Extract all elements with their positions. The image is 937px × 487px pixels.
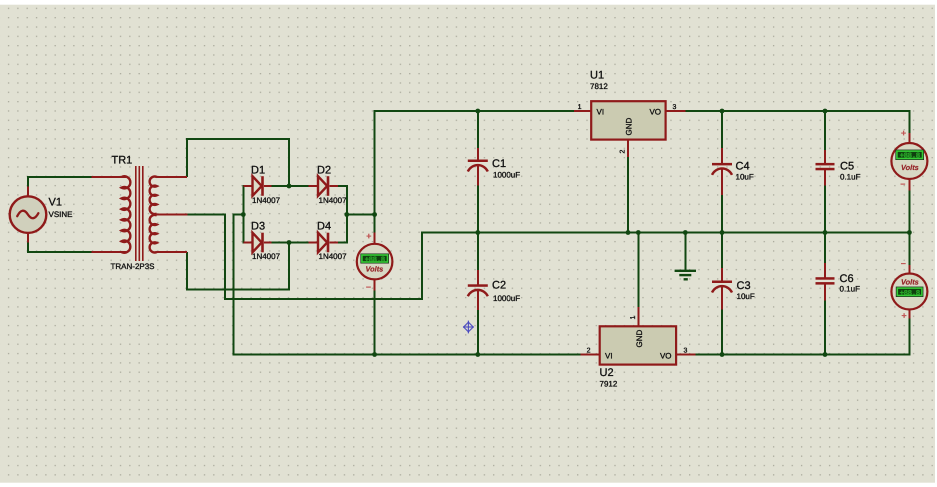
- voltmeter VM1 (raw supply): [357, 233, 393, 291]
- junction: C5 top on top rail: [823, 109, 828, 114]
- svg-text:1: 1: [630, 316, 637, 320]
- svg-text:+: +: [366, 231, 371, 241]
- svg-text:D3: D3: [251, 221, 265, 233]
- junction: D1/D3 anodes with branch: [241, 212, 246, 217]
- wire: C4 top connection: [721, 111, 723, 149]
- svg-text:C5: C5: [840, 161, 854, 173]
- svg-text:+88.8: +88.8: [365, 257, 386, 265]
- diode D2: [309, 176, 338, 196]
- wire: voltmeter VM3 bottom down to negative rail: [908, 318, 910, 356]
- wire: D2 cathode to D2-D4 vertical: [338, 185, 348, 187]
- junction: C2 bottom on negative rail: [475, 352, 480, 357]
- capacitor C1: [468, 148, 488, 186]
- wire: C6 top from mid rail: [824, 232, 826, 264]
- wire: U1 GND pin down to mid rail: [627, 157, 629, 234]
- svg-text:7912: 7912: [600, 380, 618, 389]
- junction: D3 cathode / D4 anode / secondary bottom: [287, 240, 292, 245]
- wire: C2 top from mid rail: [477, 232, 479, 271]
- svg-text:U2: U2: [600, 367, 614, 379]
- wire: voltmeter VM1 plus stub: [374, 215, 376, 234]
- wire: U2 GND pin up to mid rail: [637, 232, 639, 308]
- svg-text:VO: VO: [649, 108, 661, 117]
- junction: C1 top on top rail: [475, 109, 480, 114]
- wire: C2 bottom to negative rail: [477, 310, 479, 356]
- svg-text:C4: C4: [736, 161, 750, 173]
- wire: D4 cathode to D2-D4 vertical: [338, 242, 348, 244]
- junction: D1 cathode / D2 anode / secondary top: [287, 184, 292, 189]
- origin marker: [463, 321, 474, 334]
- wire: C1 top connection: [477, 111, 479, 149]
- junction: VM1 minus on negative rail: [372, 352, 377, 357]
- wire: C4 bottom to mid rail: [721, 195, 723, 234]
- svg-text:VI: VI: [597, 108, 605, 117]
- svg-text:D4: D4: [317, 221, 331, 233]
- wire: TR1 secondary bottom pin down and over to D3-D4 junction: [186, 243, 290, 291]
- wire: C5 bottom to mid rail: [824, 185, 826, 233]
- svg-text:VI: VI: [605, 352, 613, 361]
- svg-text:0.1uF: 0.1uF: [840, 173, 861, 182]
- junction: ground symbol on mid rail: [683, 230, 688, 235]
- capacitor C2: [468, 270, 488, 310]
- voltmeter VM3 (-12V output): [891, 265, 927, 319]
- voltmeter VM2 (+12V output): [891, 133, 927, 191]
- svg-text:GND: GND: [625, 118, 634, 136]
- transformer TR1: [92, 166, 188, 261]
- wire: C3 bottom to negative rail: [721, 309, 723, 355]
- wire: D3 cathode to D4 anode: [271, 242, 309, 244]
- AC source V1: [10, 187, 47, 243]
- junction: D2/D4 cathodes: [344, 212, 349, 217]
- wire: voltmeter VM1 minus down to negative rail: [374, 290, 376, 356]
- voltage regulator U2 7912: [581, 307, 696, 364]
- wire: negative bottom rail (left part, to U2 VI): [234, 354, 581, 356]
- svg-text:TRAN-2P3S: TRAN-2P3S: [111, 262, 155, 271]
- svg-text:7812: 7812: [590, 82, 608, 91]
- wire: negative bottom rail (right part, from U2 VO): [696, 354, 911, 356]
- svg-text:−: −: [901, 259, 906, 269]
- junction: voltmeters on mid rail right end: [907, 230, 912, 235]
- svg-text:1000uF: 1000uF: [493, 171, 520, 180]
- svg-text:GND: GND: [635, 330, 644, 348]
- svg-text:1N4007: 1N4007: [319, 196, 348, 205]
- svg-text:−: −: [900, 179, 905, 189]
- svg-text:D1: D1: [251, 165, 265, 177]
- svg-text:2: 2: [587, 348, 591, 355]
- wire: V1 bottom terminal to TR1 primary bottom: [27, 242, 92, 253]
- svg-text:VO: VO: [660, 352, 672, 361]
- voltage regulator U1 7812: [574, 101, 685, 157]
- wire: voltmeter VM2 minus down to mid rail: [908, 190, 910, 233]
- svg-text:Volts: Volts: [901, 163, 919, 172]
- wire: vertical joining D2 and D4 cathodes: [346, 185, 348, 244]
- wire: TR1 secondary top pin up and over to D1-D2 junction: [186, 138, 290, 186]
- wire: C5 top connection: [824, 111, 826, 151]
- junction: C4/C3 on mid rail: [720, 230, 725, 235]
- svg-text:1N4007: 1N4007: [252, 252, 281, 261]
- capacitor C3: [712, 268, 732, 310]
- svg-text:+: +: [901, 128, 906, 138]
- wire: D1/D3 anode node branch to negative rail: [234, 214, 244, 356]
- svg-text:D2: D2: [317, 165, 331, 177]
- svg-text:Volts: Volts: [366, 265, 384, 274]
- svg-text:10uF: 10uF: [737, 292, 755, 301]
- svg-text:Volts: Volts: [901, 278, 919, 287]
- wire: C3 top from mid rail: [721, 232, 723, 269]
- wire: D2/D4 cathode node to voltmeter column: [347, 214, 376, 216]
- svg-text:C1: C1: [492, 158, 506, 170]
- capacitor C5: [816, 150, 835, 186]
- wire: positive top rail (right part, from U1 VO): [685, 110, 910, 112]
- svg-text:1: 1: [578, 104, 582, 111]
- wire: C1 bottom to mid rail: [477, 185, 479, 233]
- svg-text:+: +: [902, 311, 907, 321]
- wire: ground symbol stub: [684, 232, 686, 270]
- svg-text:1N4007: 1N4007: [252, 196, 281, 205]
- svg-text:1000uF: 1000uF: [493, 294, 520, 303]
- junction: positive raw node at voltmeter VM1: [372, 212, 377, 217]
- diode D3: [243, 233, 271, 253]
- svg-text:3: 3: [684, 348, 688, 355]
- svg-text:0.1uF: 0.1uF: [840, 285, 861, 294]
- junction: C4 top on top rail: [720, 109, 725, 114]
- svg-text:VSINE: VSINE: [49, 210, 73, 219]
- wire: voltmeter VM3 plus from mid rail: [908, 232, 910, 266]
- wire: D1 cathode to D2 anode: [271, 185, 309, 187]
- wire: vertical joining D1 and D3 anodes: [242, 185, 244, 244]
- junction: C6 bottom on negative rail: [823, 352, 828, 357]
- wire: top rail down to right voltmeter plus: [908, 111, 910, 134]
- junction: U1 GND on mid rail: [626, 230, 631, 235]
- svg-text:C3: C3: [737, 280, 751, 292]
- svg-text:V1: V1: [49, 197, 62, 209]
- svg-text:10uF: 10uF: [736, 173, 754, 182]
- svg-text:U1: U1: [590, 70, 604, 82]
- diode D1: [243, 176, 271, 196]
- wire: V1 top terminal to TR1 primary top: [27, 177, 92, 188]
- svg-text:3: 3: [673, 104, 677, 111]
- capacitor C6: [816, 263, 835, 301]
- svg-text:C2: C2: [492, 280, 506, 292]
- svg-text:C6: C6: [840, 273, 854, 285]
- wire: TR1 center tap down and across: [187, 214, 422, 301]
- svg-text:+88.8: +88.8: [900, 153, 921, 161]
- junction: U2 GND on mid rail: [636, 230, 641, 235]
- junction: C3 bottom on negative rail: [720, 352, 725, 357]
- ground symbol: [675, 270, 696, 281]
- wire: C6 bottom to negative rail: [824, 300, 826, 355]
- capacitor C4: [712, 148, 732, 195]
- wire: ground mid rail: [421, 232, 909, 234]
- junction: C1/C2 on mid rail: [475, 230, 480, 235]
- wire: positive top rail (left part, to U1 VI): [374, 110, 574, 112]
- svg-text:1N4007: 1N4007: [319, 252, 348, 261]
- junction: C5/C6 on mid rail: [823, 230, 828, 235]
- svg-text:−: −: [366, 282, 371, 292]
- diode D4: [309, 233, 338, 253]
- svg-text:TR1: TR1: [112, 155, 133, 167]
- wire: positive raw node up to top rail: [374, 111, 376, 216]
- svg-text:+88.8: +88.8: [900, 290, 921, 298]
- svg-text:2: 2: [620, 150, 627, 154]
